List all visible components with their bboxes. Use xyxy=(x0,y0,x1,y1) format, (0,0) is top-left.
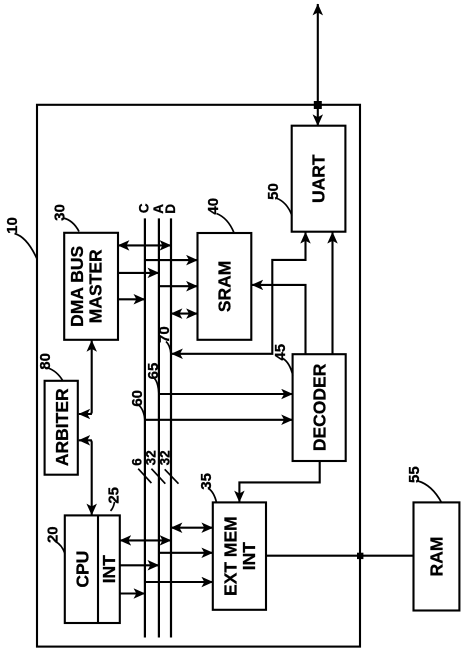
wire bus D to EXT MEM INT (bidirectional) xyxy=(171,527,213,529)
leader line for 25 xyxy=(111,502,115,511)
wire UART to bus D (70 net) xyxy=(172,232,306,354)
external serial line to UART (top) xyxy=(317,4,319,126)
leader line for 40 xyxy=(217,214,235,233)
wire DMA to bus A xyxy=(118,272,159,274)
svg-text:32: 32 xyxy=(157,450,172,465)
svg-text:35: 35 xyxy=(198,473,215,490)
leader line for 45 xyxy=(283,359,293,376)
block SRAM 40 xyxy=(198,233,252,340)
wire bus C to DECODER xyxy=(145,419,293,421)
bus width slash on bus C (6) xyxy=(138,469,151,483)
svg-text:C: C xyxy=(137,203,152,213)
junction square on outer box right edge (memory bus pin) xyxy=(357,553,363,559)
wire bus A to DECODER xyxy=(159,393,293,395)
wire bus C to SRAM xyxy=(145,259,198,261)
svg-text:ARBITER: ARBITER xyxy=(52,388,72,466)
outer system boundary box 10 xyxy=(37,105,360,647)
svg-text:32: 32 xyxy=(144,450,159,465)
bus line A xyxy=(158,218,160,637)
svg-text:MASTER: MASTER xyxy=(86,249,106,323)
svg-text:D: D xyxy=(163,204,178,214)
svg-text:70: 70 xyxy=(156,326,173,343)
leader line for 55 xyxy=(418,481,442,503)
leader line for 65 xyxy=(155,379,159,394)
wire DMA to bus C xyxy=(118,298,145,300)
wire DECODER to UART select xyxy=(331,232,333,354)
svg-text:45: 45 xyxy=(272,344,289,361)
leader line for 30 xyxy=(63,218,79,232)
wire DMA to ARBITER (bidirectional bent) xyxy=(79,340,92,414)
svg-text:50: 50 xyxy=(265,183,282,200)
svg-text:6: 6 xyxy=(130,458,145,466)
junction square on outer box top edge (serial I/O pin) xyxy=(314,101,322,109)
svg-text:55: 55 xyxy=(406,466,423,483)
bus line C xyxy=(144,218,146,637)
svg-text:CPU: CPU xyxy=(73,551,93,588)
block ARBITER 80 xyxy=(45,381,78,475)
block CPU/INT 20 xyxy=(65,515,120,623)
bus width slash on bus A (32) xyxy=(151,469,165,484)
svg-text:40: 40 xyxy=(205,198,222,215)
svg-text:20: 20 xyxy=(44,526,61,543)
wire CPU/INT to bus C xyxy=(120,592,145,594)
wire CPU to ARBITER (bidirectional bent) xyxy=(79,440,92,515)
svg-text:INT: INT xyxy=(239,542,259,571)
leader line for 60 xyxy=(139,406,145,420)
svg-text:65: 65 xyxy=(145,363,162,380)
svg-text:10: 10 xyxy=(4,217,21,234)
wire bus A to SRAM xyxy=(159,285,198,287)
divider between CPU and INT xyxy=(97,515,99,623)
wire CPU/INT to bus D (bidirectional) xyxy=(120,539,171,541)
svg-text:EXT MEM: EXT MEM xyxy=(221,516,241,596)
svg-text:25: 25 xyxy=(105,487,122,504)
bus width slash on bus D (32) xyxy=(165,469,179,483)
svg-text:60: 60 xyxy=(129,390,146,407)
leader line for 80 xyxy=(48,368,63,381)
block DECODER 45 xyxy=(293,354,346,461)
svg-text:INT: INT xyxy=(99,555,119,584)
wire bus D to SRAM (bidirectional) xyxy=(171,313,198,315)
wire DECODER to EXT MEM INT select xyxy=(239,461,319,502)
svg-text:80: 80 xyxy=(37,353,54,370)
leader line for 50 xyxy=(276,198,292,216)
wire DECODER to SRAM select xyxy=(252,285,306,354)
svg-text:UART: UART xyxy=(309,154,329,203)
bus line D xyxy=(170,218,172,637)
wire bus A to EXT MEM INT xyxy=(159,552,213,554)
leader line for 20 xyxy=(56,542,65,554)
wire DMA to bus D (bidirectional) xyxy=(118,244,171,246)
svg-text:DECODER: DECODER xyxy=(309,363,329,451)
wire CPU/INT to bus A xyxy=(120,564,159,566)
wire EXT MEM INT to RAM xyxy=(266,555,414,557)
svg-text:SRAM: SRAM xyxy=(215,261,235,313)
block DMA BUS MASTER U30 xyxy=(64,233,118,340)
leader line for 35 xyxy=(209,489,217,503)
svg-text:30: 30 xyxy=(51,204,68,221)
block RAM 55 xyxy=(414,502,460,610)
svg-text:RAM: RAM xyxy=(427,537,447,577)
leader line for 10 xyxy=(15,234,37,259)
wire bus C to EXT MEM INT xyxy=(145,581,213,583)
block EXT MEM INT 35 xyxy=(213,502,266,609)
block UART 50 xyxy=(292,126,346,232)
svg-text:DMA BUS: DMA BUS xyxy=(67,246,87,327)
leader line for 70 xyxy=(166,342,171,354)
